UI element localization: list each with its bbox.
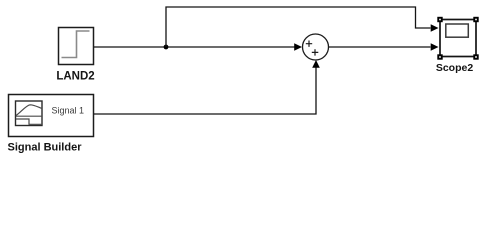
block Signal Builder body xyxy=(9,95,94,137)
block Scope2 body (selected) xyxy=(440,20,476,57)
svg-text:Scope2: Scope2 xyxy=(436,62,474,74)
arrowhead into Scope2 first input xyxy=(431,24,439,32)
Signal Builder icon step tab xyxy=(16,119,42,124)
arrowhead into sum bottom input xyxy=(312,60,320,68)
wire sum output to Scope2 second input xyxy=(329,46,431,48)
svg-text:LAND2: LAND2 xyxy=(56,71,94,83)
wire LAND2 output to sum left input xyxy=(94,46,295,48)
step waveform icon inside LAND2 xyxy=(62,31,90,58)
sum plus sign (bottom input) xyxy=(312,49,319,55)
block LAND2 (step source) body xyxy=(59,28,94,65)
svg-text:Signal 1: Signal 1 xyxy=(52,106,85,116)
sum block circle xyxy=(303,34,329,60)
sum plus sign (left input) xyxy=(306,41,312,47)
Scope2 screen rectangle xyxy=(446,24,469,37)
selection handle top-right xyxy=(473,17,478,22)
junction node on LAND2 wire xyxy=(164,45,169,50)
wire branch junction up and over to Scope2 first input xyxy=(166,7,431,47)
arrowhead into sum left input xyxy=(294,43,302,51)
selection handle bottom-left xyxy=(437,54,442,59)
selection handle top-left xyxy=(437,17,442,22)
wire Signal Builder output to sum bottom input xyxy=(94,67,316,115)
svg-text:Signal Builder: Signal Builder xyxy=(8,142,83,154)
selection handle bottom-right xyxy=(473,54,478,59)
Signal Builder icon separator line xyxy=(16,115,42,117)
arrowhead into Scope2 second input xyxy=(431,43,439,51)
Signal Builder icon waveform curve xyxy=(16,105,42,116)
Signal Builder icon frame xyxy=(16,101,43,126)
